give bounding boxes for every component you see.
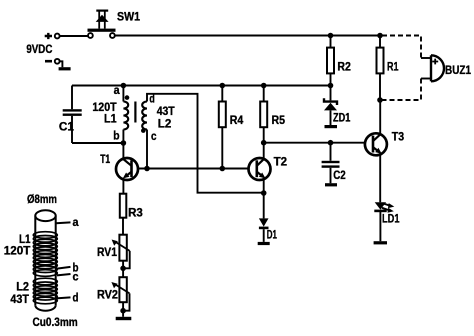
zener diode ZD1 xyxy=(324,86,337,126)
battery negative terminal xyxy=(45,59,60,64)
ground (D1) xyxy=(258,242,270,245)
svg-text:SW1: SW1 xyxy=(117,10,140,24)
wire dashed buzzer top xyxy=(382,36,421,59)
ground (RV2) xyxy=(116,317,132,320)
svg-text:R5: R5 xyxy=(272,113,286,127)
svg-text:c: c xyxy=(151,129,157,143)
ground (C2) xyxy=(325,183,337,186)
svg-text:Ø8mm: Ø8mm xyxy=(27,192,57,206)
wire C1 to node b xyxy=(72,142,123,144)
node R4 bottom xyxy=(220,166,226,172)
coil former winding L2 xyxy=(33,278,57,304)
resistor R2 xyxy=(327,36,334,86)
svg-text:ZD1: ZD1 xyxy=(333,111,350,125)
svg-text:T1: T1 xyxy=(100,152,110,166)
transistor T1 xyxy=(116,143,138,194)
inductor L1 (primary winding) xyxy=(123,86,128,144)
coil former lead c xyxy=(57,274,71,275)
svg-text:BUZ1: BUZ1 xyxy=(445,63,471,77)
node c / T1 base xyxy=(144,166,150,172)
coil former lead b xyxy=(57,267,71,269)
wire battery plus to switch xyxy=(59,35,88,37)
transistor T3 xyxy=(365,100,387,202)
node top rail R2 xyxy=(328,33,334,39)
coil former lead a xyxy=(56,221,71,224)
buzzer BUZ1 xyxy=(431,55,444,81)
ground (ZD1) xyxy=(325,125,338,128)
svg-text:R2: R2 xyxy=(337,59,351,73)
trimmer RV1 xyxy=(112,235,130,269)
node R5 bottom / T2 collector xyxy=(261,140,267,146)
node RV1 bottom xyxy=(120,266,126,272)
coil former body xyxy=(35,210,55,310)
svg-text:d: d xyxy=(73,291,79,305)
node V-rail R2/ZD1 xyxy=(328,83,334,89)
node b xyxy=(121,140,127,146)
svg-text:a: a xyxy=(114,83,120,97)
resistor R3 xyxy=(120,194,127,235)
ground (battery) xyxy=(59,67,71,70)
battery positive terminal xyxy=(45,33,60,39)
wire dashed buzzer bottom xyxy=(380,79,421,101)
svg-text:L1: L1 xyxy=(104,111,117,125)
coil former winding L1 xyxy=(33,232,57,277)
wire buzzer bottom lead xyxy=(421,78,431,80)
resistor R5 xyxy=(260,86,267,143)
L2 phasing dot xyxy=(141,128,146,133)
svg-text:T3: T3 xyxy=(392,130,404,144)
trimmer RV2 xyxy=(111,268,129,317)
node T2 emitter xyxy=(261,190,267,196)
capacitor C1 xyxy=(63,86,82,144)
switch SW1 xyxy=(88,10,116,38)
svg-text:b: b xyxy=(113,129,119,143)
wire collector node to T3 base xyxy=(264,142,366,144)
svg-text:R1: R1 xyxy=(387,59,399,73)
wire base line T1-T2 xyxy=(138,168,249,170)
diode D1 xyxy=(259,218,269,242)
wire buzzer top lead xyxy=(421,57,431,59)
svg-text:C2: C2 xyxy=(333,168,346,182)
svg-text:Cu0.3mm: Cu0.3mm xyxy=(33,315,78,329)
node top rail R1 xyxy=(377,33,383,39)
wire supply sub-rail xyxy=(72,85,331,87)
svg-text:RV1: RV1 xyxy=(97,245,117,259)
svg-text:d: d xyxy=(149,91,154,105)
svg-text:c: c xyxy=(73,270,79,284)
coil former lead d xyxy=(56,297,71,298)
svg-text:a: a xyxy=(73,215,79,229)
capacitor C2 xyxy=(322,143,340,184)
node sub-rail R5 xyxy=(261,83,267,89)
L1 phasing dot xyxy=(125,95,130,100)
resistor R1 xyxy=(377,36,384,101)
LED LD1 xyxy=(374,202,394,241)
node sub-rail R4 xyxy=(220,83,226,89)
node RV2 bottom xyxy=(120,308,126,314)
wire top rail xyxy=(115,35,380,37)
ground (LD1) xyxy=(374,241,387,244)
svg-text:T2: T2 xyxy=(274,155,288,169)
node C2 top xyxy=(328,140,334,146)
wire negative to ground xyxy=(59,61,62,67)
inductor L2 (secondary winding) xyxy=(142,94,264,193)
node sub-rail L1 xyxy=(121,83,127,89)
svg-text:C1: C1 xyxy=(59,120,74,134)
transistor T2 xyxy=(249,143,271,219)
svg-text:9VDC: 9VDC xyxy=(26,42,52,56)
node R1 bottom xyxy=(377,97,383,103)
svg-text:L2: L2 xyxy=(158,117,172,131)
transformer core xyxy=(134,102,136,123)
svg-text:120T: 120T xyxy=(4,243,31,257)
svg-text:R3: R3 xyxy=(128,206,143,220)
svg-text:LD1: LD1 xyxy=(382,212,400,226)
svg-text:RV2: RV2 xyxy=(97,287,118,301)
svg-text:R4: R4 xyxy=(230,113,244,127)
svg-text:43T: 43T xyxy=(10,292,29,306)
svg-text:D1: D1 xyxy=(267,228,277,242)
resistor R4 xyxy=(219,86,226,169)
